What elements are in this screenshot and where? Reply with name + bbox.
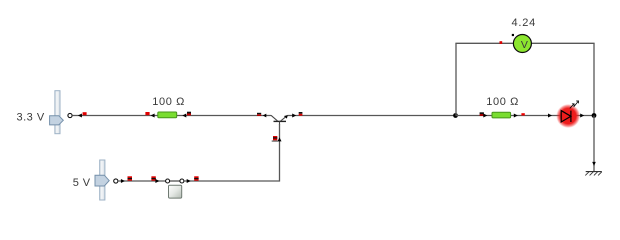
current arrow <box>155 179 159 183</box>
marker red+black <box>187 112 191 116</box>
current arrow <box>151 114 155 118</box>
voltmeter positive terminal dot <box>512 34 514 36</box>
marker red <box>83 112 87 115</box>
svg-text:V: V <box>521 39 528 51</box>
current arrow <box>121 179 125 183</box>
current arrow <box>182 114 186 118</box>
marker red <box>194 176 198 180</box>
marker red <box>521 113 524 115</box>
marker black+red <box>257 113 261 116</box>
current arrow <box>187 179 191 183</box>
current arrow <box>292 114 296 118</box>
wire node B to ground <box>593 116 595 172</box>
svg-text:5 V: 5 V <box>73 177 91 189</box>
wire base vertical <box>272 124 282 182</box>
switch S1 <box>166 179 184 198</box>
current arrow <box>548 114 552 118</box>
LED D1 <box>556 101 580 128</box>
svg-text:100 Ω: 100 Ω <box>152 96 185 108</box>
junction node A <box>453 113 458 118</box>
resistor R2 100 ohm <box>492 112 511 118</box>
wire emitter to node A <box>288 112 456 118</box>
marker red <box>299 112 303 116</box>
transistor Q1 NPN <box>271 115 288 125</box>
wire 5V to switch <box>118 176 166 183</box>
current arrow <box>483 114 487 118</box>
wire collector branch <box>72 112 271 118</box>
svg-text:100 Ω: 100 Ω <box>486 96 519 108</box>
marker red <box>145 112 149 115</box>
resistor R1 100 ohm <box>158 112 177 118</box>
current arrow <box>580 114 584 118</box>
junction node B <box>592 113 597 118</box>
voltmeter VM1 <box>513 35 531 53</box>
wire voltmeter top <box>455 41 594 44</box>
power supply 5V symbol <box>95 160 109 200</box>
pin of 5V supply <box>114 179 118 183</box>
power supply 3.3V symbol <box>50 91 64 134</box>
marker red <box>272 136 278 142</box>
svg-text:4.24: 4.24 <box>511 17 536 29</box>
marker red+black <box>128 176 133 180</box>
wire right vertical (node B to top) <box>593 43 595 115</box>
LED light arrows <box>570 101 579 108</box>
svg-text:3.3 V: 3.3 V <box>17 112 45 124</box>
switch button <box>169 185 182 198</box>
wire node A to voltmeter (left vertical) <box>455 43 457 115</box>
ground <box>585 162 602 176</box>
pin of 3.3V supply <box>68 113 72 117</box>
current arrow <box>78 114 82 118</box>
wire switch to base corner <box>184 176 280 183</box>
marker red <box>151 176 155 180</box>
wire node A to LED branch <box>456 112 595 117</box>
marker red <box>500 41 503 44</box>
current arrow <box>278 137 282 141</box>
current arrow <box>263 114 267 118</box>
marker black+red <box>480 112 484 116</box>
current arrow <box>514 114 518 118</box>
